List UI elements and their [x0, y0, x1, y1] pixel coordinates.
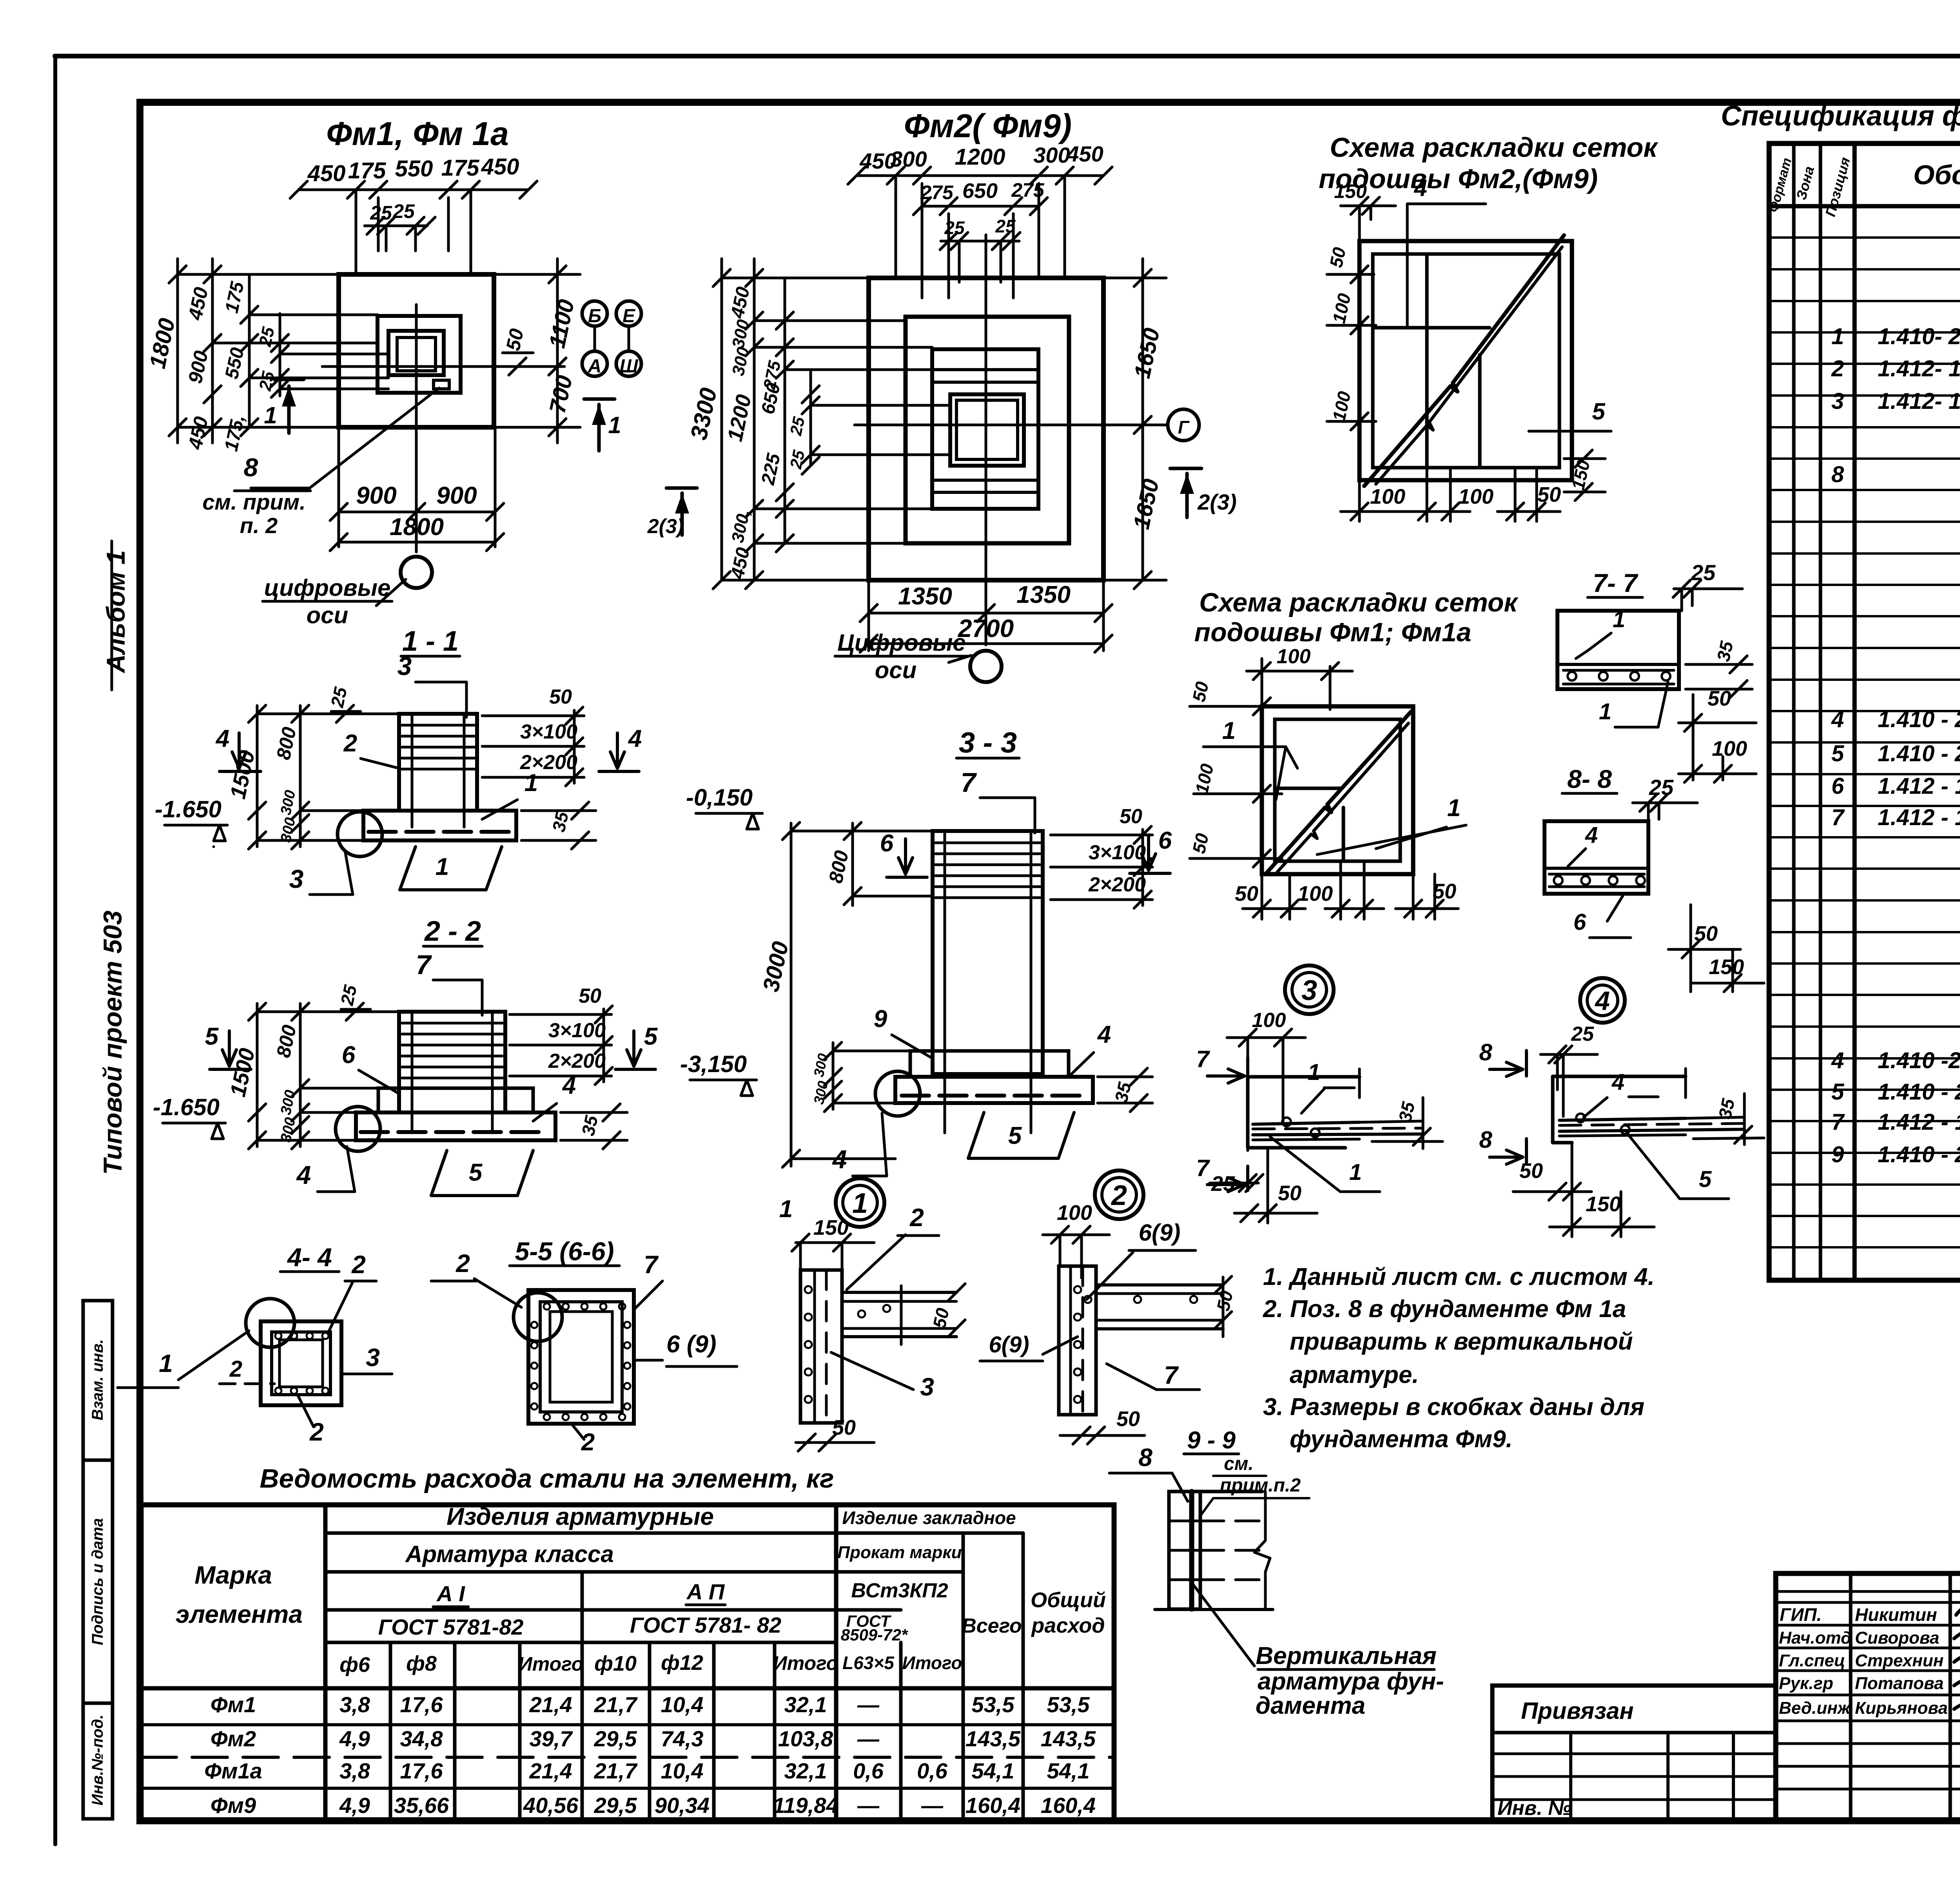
FM1 horizontal centerline: [322, 365, 564, 368]
svg-text:50: 50: [1235, 882, 1258, 905]
privyazan table: [1492, 1686, 1776, 1821]
svg-text:1.410 - 2 вып.1: 1.410 - 2 вып.1: [1878, 741, 1960, 766]
svg-text:Инв. №: Инв. №: [1497, 1797, 1572, 1820]
svg-text:17,6: 17,6: [400, 1692, 443, 1717]
svg-text:Всего: Всего: [962, 1615, 1022, 1637]
svg-text:Итого: Итого: [902, 1653, 962, 1673]
svg-text:Изделие закладное: Изделие закладное: [842, 1508, 1016, 1528]
svg-text:100: 100: [1277, 645, 1311, 668]
svg-text:175: 175: [348, 158, 387, 183]
section 2-2 right dim stack: [510, 1013, 612, 1016]
svg-text:4: 4: [1594, 986, 1610, 1016]
svg-text:1800: 1800: [390, 514, 444, 541]
svg-text:1: 1: [1222, 717, 1236, 744]
svg-text:Вед.инж: Вед.инж: [1779, 1698, 1851, 1718]
FM1 top dimension line 450 175 550 175 450: [299, 189, 528, 191]
svg-text:8: 8: [1479, 1039, 1492, 1065]
svg-text:приварить к вертикальной: приварить к вертикальной: [1290, 1328, 1633, 1355]
detail4 slab band: [1559, 1118, 1686, 1120]
svg-text:8509-72*: 8509-72*: [841, 1626, 908, 1644]
svg-text:ф8: ф8: [406, 1652, 437, 1675]
svg-text:10,4: 10,4: [661, 1758, 704, 1783]
svg-text:21,4: 21,4: [529, 1758, 572, 1783]
svg-text:Цифровые: Цифровые: [837, 630, 966, 656]
svg-text:Изделия арматурные: Изделия арматурные: [446, 1503, 714, 1530]
svg-text:300: 300: [890, 147, 927, 171]
section 3-3 step: [910, 1051, 1069, 1077]
FM2 horizontal centerline: [855, 424, 1166, 426]
svg-text:2: 2: [1111, 1180, 1127, 1211]
detail4 band extension: [1686, 1117, 1744, 1118]
svg-text:1: 1: [159, 1349, 173, 1377]
svg-text:90,34: 90,34: [655, 1793, 710, 1818]
svg-text:25: 25: [1571, 1023, 1594, 1045]
svg-text:Вертикальная: Вертикальная: [1256, 1642, 1436, 1669]
svg-text:9: 9: [1831, 1142, 1844, 1167]
svg-text:Привязан: Привязан: [1521, 1698, 1633, 1724]
svg-text:Фм2( Фм9): Фм2( Фм9): [904, 107, 1072, 144]
circled number 3: [1285, 965, 1334, 1014]
svg-text:5-5 (6-6): 5-5 (6-6): [515, 1237, 614, 1266]
scheme FM2 bottom dims 100 100 50: [1358, 480, 1361, 521]
svg-text:1: 1: [1308, 1060, 1320, 1085]
svg-text:1.412- 1/77 вып.3: 1.412- 1/77 вып.3: [1878, 356, 1960, 381]
svg-text:3: 3: [1301, 975, 1317, 1006]
svg-text:Сиворова: Сиворова: [1855, 1628, 1939, 1648]
svg-text:5: 5: [1831, 741, 1844, 766]
svg-text:10,4: 10,4: [661, 1692, 704, 1717]
svg-text:Фм9: Фм9: [211, 1793, 256, 1818]
svg-text:Итого: Итого: [518, 1653, 583, 1675]
svg-text:подошвы Фм1; Фм1а: подошвы Фм1; Фм1а: [1194, 617, 1472, 647]
FM1 middle square: [377, 316, 461, 393]
section 3-3 left small dims 300 300: [832, 1043, 835, 1109]
corner1 horizontal band: [842, 1291, 956, 1294]
svg-text:расход: расход: [1031, 1614, 1105, 1637]
svg-text:50: 50: [579, 985, 601, 1007]
FM1 left extension lines: [178, 273, 339, 276]
svg-text:7: 7: [1831, 805, 1845, 830]
spec table column lines: [1792, 143, 1796, 1280]
svg-text:3: 3: [920, 1373, 934, 1401]
FM2 dim 275 650 275: [922, 205, 1039, 208]
svg-text:Кирьянова: Кирьянова: [1855, 1698, 1948, 1718]
spec table outer: [1769, 143, 1960, 1280]
svg-text:21,4: 21,4: [529, 1692, 572, 1717]
section 9-9 body right dashed: [1200, 1490, 1262, 1493]
svg-text:Обозначение: Обозначение: [1913, 160, 1960, 190]
svg-text:9 - 9: 9 - 9: [1187, 1427, 1236, 1454]
detail 8-8 body: [1544, 821, 1648, 894]
svg-text:7: 7: [961, 767, 977, 798]
scheme FM2 diagonal with breaks: [1364, 235, 1564, 486]
svg-text:7: 7: [1831, 1109, 1845, 1135]
svg-text:Потапова: Потапова: [1855, 1674, 1944, 1693]
svg-text:1: 1: [1831, 324, 1844, 349]
svg-text:53,5: 53,5: [1047, 1692, 1090, 1717]
svg-text:29,5: 29,5: [594, 1726, 637, 1751]
scheme FM1 outer square: [1262, 706, 1413, 874]
scheme FM2 dim 150: [1341, 205, 1396, 207]
svg-text:300: 300: [1033, 143, 1070, 167]
svg-text:50: 50: [1537, 483, 1561, 506]
FM1 outer footprint square: [339, 274, 494, 427]
svg-text:-1.650: -1.650: [155, 796, 221, 822]
svg-text:8: 8: [244, 453, 258, 482]
scheme FM1 diagonal: [1266, 711, 1411, 873]
svg-text:цифровые: цифровые: [264, 575, 391, 601]
svg-text:А: А: [588, 356, 602, 377]
margin sidebar boxes: [83, 1301, 113, 1819]
steel table horizontals: [325, 1531, 1023, 1535]
svg-text:Г: Г: [1178, 417, 1190, 437]
section 9-9 leader to text: [1192, 1584, 1254, 1666]
svg-text:2 - 2: 2 - 2: [424, 916, 481, 947]
svg-text:1: 1: [1447, 795, 1461, 822]
signature scribbles: [1956, 1606, 1960, 1622]
svg-text:6(9): 6(9): [989, 1332, 1029, 1357]
svg-text:5: 5: [469, 1159, 483, 1186]
svg-text:6: 6: [1831, 773, 1844, 799]
svg-text:арматура фун-: арматура фун-: [1258, 1668, 1444, 1695]
svg-text:143,5: 143,5: [965, 1726, 1021, 1751]
svg-text:6(9): 6(9): [1139, 1219, 1181, 1246]
FM1 axis circle: [401, 557, 432, 588]
svg-text:7: 7: [644, 1250, 659, 1279]
svg-text:4: 4: [628, 725, 642, 752]
scheme FM2 outer square: [1359, 241, 1572, 480]
svg-text:1.412- 1/77 вып.3: 1.412- 1/77 вып.3: [1878, 388, 1960, 414]
svg-text:оси: оси: [875, 657, 917, 683]
svg-text:6: 6: [342, 1042, 356, 1069]
FM2 top dim 450 300 1200 300 450: [857, 174, 1103, 177]
svg-text:дамента: дамента: [1256, 1692, 1365, 1719]
svg-text:Общий: Общий: [1031, 1588, 1106, 1612]
svg-text:119,84: 119,84: [773, 1793, 838, 1818]
svg-text:1. Данный лист см. с листо: 1. Данный лист см. с листом 4.: [1263, 1263, 1655, 1290]
svg-text:50: 50: [549, 686, 572, 708]
section 5-5 rebar dots: [544, 1303, 550, 1310]
FM1 bottom dim 900 900: [339, 511, 495, 514]
svg-text:4,9: 4,9: [339, 1793, 370, 1818]
svg-text:Типовой проект 503: Типовой проект 503: [98, 911, 127, 1175]
svg-text:7: 7: [1196, 1046, 1210, 1072]
svg-text:Б: Б: [588, 306, 601, 327]
scheme FM1 inner square: [1275, 719, 1400, 861]
corner1 vertical band: [800, 1270, 842, 1423]
steel table outer: [141, 1505, 1114, 1821]
circled number 2: [1095, 1170, 1143, 1219]
FM1 left dim lines: [176, 259, 179, 443]
section 1-1 column: [399, 714, 477, 811]
svg-text:5: 5: [1592, 398, 1606, 425]
section 3-3 right dim stack: [1051, 834, 1152, 836]
svg-text:Фм2: Фм2: [211, 1726, 256, 1751]
FM2 column inner: [956, 400, 1018, 459]
svg-text:7: 7: [1164, 1361, 1179, 1389]
FM1 column inner: [397, 338, 436, 371]
svg-text:50: 50: [1120, 805, 1142, 828]
section 2-2 detail circle: [336, 1107, 380, 1151]
svg-text:5: 5: [1008, 1122, 1022, 1149]
svg-text:Подпись и дата: Подпись и дата: [89, 1518, 106, 1645]
svg-text:Арматура класса: Арматура класса: [405, 1541, 614, 1567]
svg-text:160,4: 160,4: [965, 1793, 1020, 1818]
svg-text:8: 8: [1831, 462, 1844, 487]
svg-text:ф12: ф12: [661, 1651, 703, 1675]
svg-text:9: 9: [874, 1005, 887, 1032]
svg-text:650: 650: [962, 179, 998, 203]
svg-text:5: 5: [205, 1023, 219, 1050]
svg-text:3,8: 3,8: [339, 1692, 370, 1717]
section 1-1 right dim stack: [482, 715, 584, 717]
svg-text:50: 50: [1433, 880, 1456, 903]
svg-text:25: 25: [370, 202, 392, 224]
svg-text:1350: 1350: [1016, 581, 1071, 608]
svg-text:L63×5: L63×5: [842, 1653, 895, 1673]
svg-text:—: —: [857, 1793, 880, 1818]
FM2 section marker 2(3) left: [666, 486, 697, 490]
svg-text:см.: см.: [1224, 1453, 1254, 1474]
svg-text:Е: Е: [622, 306, 636, 327]
FM1 section marker 1 right: [584, 397, 615, 401]
svg-text:2: 2: [1831, 356, 1844, 381]
FM2 outer footprint: [869, 278, 1103, 580]
section 3-3 left dim 800: [851, 823, 854, 905]
svg-text:1: 1: [524, 769, 538, 797]
svg-text:А П: А П: [686, 1579, 725, 1604]
detail3 outline: [1248, 1075, 1359, 1079]
detail 7-7 body: [1557, 611, 1679, 689]
svg-text:6 (9): 6 (9): [666, 1331, 716, 1358]
svg-text:3: 3: [289, 864, 304, 893]
FM2 section marker 2(3) right: [1170, 467, 1201, 470]
circled number 1: [836, 1178, 884, 1227]
svg-text:Нач.отд: Нач.отд: [1779, 1628, 1851, 1648]
section 1-1 detail circle: [338, 812, 382, 856]
svg-text:50: 50: [1278, 1181, 1301, 1205]
svg-text:3 - 3: 3 - 3: [959, 726, 1017, 759]
svg-text:7- 7: 7- 7: [1593, 568, 1639, 597]
svg-text:2: 2: [909, 1203, 924, 1232]
svg-text:3: 3: [397, 651, 412, 680]
section 9-9 base line: [1155, 1608, 1273, 1611]
svg-text:2: 2: [351, 1250, 366, 1279]
svg-text:3: 3: [1831, 388, 1844, 414]
svg-text:ф6: ф6: [339, 1653, 370, 1677]
FM2 axis circle below: [970, 651, 1002, 682]
svg-text:0,6: 0,6: [917, 1758, 948, 1783]
svg-text:2: 2: [229, 1356, 242, 1382]
FM2 axis circle G: [1168, 409, 1199, 441]
svg-text:4- 4: 4- 4: [287, 1243, 332, 1272]
svg-text:1: 1: [1613, 607, 1625, 632]
svg-text:32,1: 32,1: [784, 1692, 827, 1717]
svg-text:4: 4: [1831, 1048, 1844, 1073]
svg-text:1.410- 2 вып.1: 1.410- 2 вып.1: [1878, 324, 1960, 349]
section 1-1 slab: [363, 811, 516, 840]
section 2-2 step: [378, 1088, 533, 1112]
svg-text:0,6: 0,6: [853, 1758, 884, 1783]
FM1 right dim line 1100 700: [556, 259, 559, 443]
svg-text:-1.650: -1.650: [153, 1094, 220, 1120]
svg-text:3: 3: [366, 1343, 380, 1372]
svg-text:25: 25: [256, 325, 278, 348]
svg-text:150: 150: [1334, 180, 1367, 202]
svg-text:450: 450: [1066, 142, 1103, 166]
svg-text:ГИП.: ГИП.: [1780, 1604, 1822, 1625]
svg-text:—: —: [921, 1793, 944, 1818]
svg-text:3×100: 3×100: [1089, 841, 1146, 864]
svg-text:900: 900: [356, 482, 396, 509]
section 5-5 outer square: [528, 1290, 634, 1424]
svg-text:Марка: Марка: [194, 1561, 272, 1589]
svg-text:Никитин: Никитин: [1855, 1604, 1937, 1625]
FM2 column outer: [950, 394, 1024, 466]
detail3 band extension: [1359, 1121, 1423, 1122]
svg-text:6: 6: [880, 830, 894, 857]
FM1 top extension lines: [355, 190, 358, 274]
svg-text:4: 4: [1414, 175, 1427, 201]
FM1 vertical centerline: [415, 305, 418, 552]
svg-text:ф10: ф10: [594, 1652, 637, 1675]
FM2 vertical centerline: [985, 235, 987, 645]
svg-text:—: —: [857, 1692, 880, 1717]
spec table header row: [1769, 204, 1960, 209]
svg-text:103,8: 103,8: [778, 1726, 833, 1751]
svg-text:4: 4: [1585, 822, 1598, 848]
svg-text:4: 4: [296, 1160, 311, 1189]
svg-text:50: 50: [1519, 1159, 1543, 1183]
svg-text:54,1: 54,1: [1047, 1758, 1090, 1783]
svg-text:34,8: 34,8: [400, 1726, 443, 1751]
svg-text:40,56: 40,56: [523, 1793, 579, 1818]
FM1 bottom dim 1800: [339, 541, 495, 544]
svg-text:фундамента Фм9.: фундамента Фм9.: [1290, 1426, 1513, 1453]
svg-text:100: 100: [1057, 1201, 1092, 1225]
svg-text:25: 25: [944, 218, 965, 238]
FM2 step2 rect: [906, 317, 1069, 543]
svg-text:2: 2: [581, 1429, 595, 1456]
svg-text:150: 150: [813, 1216, 849, 1239]
svg-text:1.410 - 2 вып. 1: 1.410 - 2 вып. 1: [1878, 1142, 1960, 1167]
svg-text:100: 100: [1458, 485, 1494, 508]
FM2 step3 rect: [932, 349, 1038, 509]
svg-text:3×100: 3×100: [520, 720, 577, 743]
section 4-4 detail circle: [246, 1299, 294, 1347]
title block outer: [1776, 1573, 1960, 1821]
svg-text:1: 1: [1349, 1159, 1362, 1185]
svg-text:143,5: 143,5: [1041, 1726, 1096, 1751]
section 9-9 vertical bar: [1189, 1492, 1194, 1609]
svg-text:32,1: 32,1: [784, 1758, 827, 1783]
svg-text:3,8: 3,8: [339, 1758, 370, 1783]
FM2 top extension lines: [895, 176, 897, 278]
svg-text:Фм1: Фм1: [211, 1692, 256, 1717]
svg-text:Гл.спец: Гл.спец: [1779, 1651, 1845, 1670]
svg-text:1.410 - 2 вып.1: 1.410 - 2 вып.1: [1878, 707, 1960, 732]
svg-text:4,9: 4,9: [339, 1726, 370, 1751]
svg-text:Итого: Итого: [773, 1652, 838, 1674]
svg-text:1.410 - 2 вып. 1: 1.410 - 2 вып. 1: [1878, 1079, 1960, 1105]
svg-text:Стрехнин: Стрехнин: [1855, 1651, 1944, 1670]
svg-text:25: 25: [1691, 560, 1716, 585]
FM2 left dim lines: [720, 259, 723, 580]
svg-text:ВСт3КП2: ВСт3КП2: [851, 1579, 948, 1602]
svg-text:21,7: 21,7: [594, 1758, 638, 1783]
FM1 leader for item 8: [310, 388, 439, 488]
FM2 bottom dim 2700: [869, 642, 1103, 645]
FM1 column outer: [388, 331, 444, 375]
section 3-3 left dim 3000: [790, 823, 793, 1166]
svg-text:100: 100: [1298, 882, 1333, 905]
svg-text:450: 450: [481, 154, 519, 180]
svg-text:1350: 1350: [898, 583, 952, 610]
svg-text:21,7: 21,7: [594, 1692, 638, 1717]
svg-text:Ведомость расхода стали на: Ведомость расхода стали на элемент, кг: [260, 1464, 834, 1493]
svg-text:54,1: 54,1: [972, 1758, 1014, 1783]
svg-text:ГОСТ 5781-82: ГОСТ 5781-82: [378, 1615, 524, 1639]
section 4-4 outer square: [261, 1321, 341, 1405]
detail4 outline: [1553, 1075, 1686, 1078]
svg-text:оси: оси: [307, 602, 348, 628]
svg-text:1200: 1200: [955, 144, 1005, 170]
svg-text:арматуре.: арматуре.: [1290, 1361, 1419, 1388]
steel table verticals: [323, 1505, 328, 1821]
scheme FM2 inner divisions: [1373, 326, 1490, 330]
section 5-5 inner rings: [540, 1302, 622, 1412]
svg-text:450: 450: [307, 161, 346, 186]
svg-text:7: 7: [416, 949, 432, 980]
svg-text:550: 550: [395, 156, 433, 181]
svg-text:1: 1: [852, 1188, 868, 1219]
section 1-1 left dims: [256, 706, 259, 847]
svg-text:50: 50: [502, 327, 528, 352]
svg-text:1.412 - 1/77 вып.3: 1.412 - 1/77 вып.3: [1878, 773, 1960, 799]
svg-text:29,5: 29,5: [594, 1793, 637, 1818]
section 4-4 rebar dots: [275, 1333, 281, 1339]
svg-text:39,7: 39,7: [530, 1726, 573, 1751]
svg-text:Инв.№-под.: Инв.№-под.: [89, 1715, 106, 1805]
svg-text:А I: А I: [436, 1581, 465, 1606]
FM2 right dim 1650 1650: [1142, 259, 1144, 580]
spec table row grid: [1769, 236, 1960, 239]
svg-text:4: 4: [1612, 1069, 1624, 1095]
svg-text:2: 2: [343, 730, 357, 757]
svg-text:Прокат марки: Прокат марки: [837, 1543, 962, 1562]
svg-text:Взам. инв.: Взам. инв.: [89, 1339, 106, 1420]
scheme FM1 inner divisions: [1275, 787, 1341, 790]
svg-text:1: 1: [608, 412, 621, 438]
sheet outer border left: [53, 56, 57, 1844]
title block signature rows: [1776, 1590, 1960, 1593]
svg-text:8: 8: [1138, 1443, 1152, 1472]
svg-text:4: 4: [562, 1072, 576, 1099]
svg-text:2700: 2700: [958, 614, 1014, 642]
svg-text:1.412 - 1/77 вып.3: 1.412 - 1/77 вып.3: [1878, 805, 1960, 830]
svg-text:Схема раскладки сеток: Схема раскладки сеток: [1199, 588, 1519, 617]
svg-text:1: 1: [1599, 699, 1612, 724]
sheet outer border top: [55, 54, 1960, 58]
FM1 embedded item 8: [434, 380, 449, 389]
scheme FM2 inner square: [1373, 254, 1559, 468]
FM2 bottom dim 1350 1350: [869, 612, 1103, 615]
section 9-9 body left: [1169, 1492, 1200, 1609]
svg-text:4: 4: [1831, 707, 1844, 732]
svg-text:Рук.гр: Рук.гр: [1779, 1674, 1833, 1693]
svg-text:17,6: 17,6: [400, 1758, 443, 1783]
svg-text:Спецификация фундаментов Фм1,: Спецификация фундаментов Фм1, Фм1а, Фм2,…: [1721, 100, 1960, 132]
